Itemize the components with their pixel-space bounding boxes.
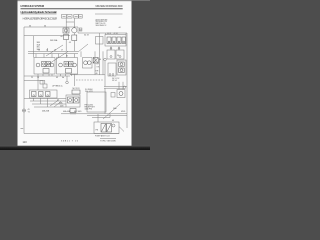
manifold valve 2 <box>112 37 116 44</box>
right note rule <box>95 13 123 15</box>
tank drop line 2 <box>73 18 75 28</box>
svg-text:4b: 4b <box>62 77 64 79</box>
tank box 78a <box>74 15 79 19</box>
center valve pair <box>66 95 80 107</box>
svg-text:42 43: 42 43 <box>114 33 118 35</box>
mid diagonal <box>78 44 88 52</box>
page top shadow <box>18 0 132 2</box>
viewer background <box>0 0 150 150</box>
bottom right valve box <box>94 122 119 134</box>
svg-text:46: 46 <box>99 59 101 61</box>
charge line lower <box>28 53 78 55</box>
bottom shadow band <box>0 146 150 150</box>
second lower bus <box>87 115 127 117</box>
main lower bus <box>61 113 127 115</box>
svg-text:40A 40B: 40A 40B <box>63 110 71 113</box>
test port <box>22 109 25 112</box>
tank box 77a <box>62 15 67 19</box>
right valve stack <box>117 60 126 75</box>
svg-text:49: 49 <box>112 120 114 122</box>
tank drop line 1 <box>65 18 67 33</box>
riser B <box>47 48 49 51</box>
svg-text:HYDRAULIC RESERVOIR AND OIL CO: HYDRAULIC RESERVOIR AND OIL COOLER <box>23 18 58 21</box>
check valve under filter <box>64 35 69 40</box>
cell drops <box>33 98 35 101</box>
manifold stems <box>110 47 112 51</box>
svg-text:25: 25 <box>31 77 33 79</box>
svg-text:16: 16 <box>54 50 56 52</box>
svg-text:40C 40D: 40C 40D <box>74 111 82 113</box>
svg-text:40: 40 <box>96 73 98 75</box>
feed to block <box>37 88 39 91</box>
svg-text:1000 PSI: 1000 PSI <box>85 108 93 110</box>
manifold valve 4 <box>122 37 126 44</box>
right tall box <box>108 63 116 76</box>
label diagonals <box>50 101 58 107</box>
svg-text:40 41: 40 41 <box>107 33 111 35</box>
svg-text:MID-SIZE WORKMAN 3000: MID-SIZE WORKMAN 3000 <box>96 5 124 8</box>
tank box 78b <box>79 15 82 19</box>
check valve circle <box>66 81 69 84</box>
aux small box <box>111 93 115 98</box>
tank box 77b <box>67 15 72 19</box>
svg-text:13: 13 <box>37 77 39 79</box>
left pump unit <box>34 58 55 75</box>
svg-text:LIFT V: LIFT V <box>52 85 58 87</box>
schematic left border <box>23 27 25 134</box>
svg-text:Hydrostatic/Hydraulic Schemati: Hydrostatic/Hydraulic Schematic <box>21 10 58 14</box>
lift valve block <box>30 90 58 98</box>
header rule <box>21 7 123 10</box>
schematic bottom border <box>24 133 119 135</box>
margin tick <box>21 127 24 129</box>
big empty box <box>87 92 106 112</box>
svg-text:WHL MTR: WHL MTR <box>85 91 94 93</box>
top-right hairline <box>132 0 151 2</box>
second supply line <box>24 35 70 37</box>
bus line a <box>24 98 66 100</box>
right wheel motor <box>117 90 125 98</box>
page <box>18 0 132 146</box>
leader diagonal long <box>44 52 68 68</box>
center risers <box>80 51 82 57</box>
svg-text:17: 17 <box>61 50 63 52</box>
solenoid box <box>93 58 98 64</box>
footer label line <box>100 137 116 139</box>
tank box ticks <box>63 15 66 17</box>
manifold block <box>105 35 126 47</box>
svg-text:36: 36 <box>44 25 46 27</box>
small component on line <box>40 81 43 85</box>
center small label box <box>72 90 80 94</box>
lower cross line 2 <box>24 80 45 82</box>
block component <box>43 84 47 88</box>
bus risers <box>97 114 99 122</box>
bus line b <box>30 100 66 102</box>
svg-text:MOTOR: MOTOR <box>73 88 81 90</box>
svg-text:TORO GM 4WD: TORO GM 4WD <box>100 140 116 142</box>
svg-text:14: 14 <box>38 50 40 52</box>
manifold valve 1 <box>107 37 111 44</box>
svg-text:40A 40B: 40A 40B <box>42 110 50 113</box>
svg-text:53 54: 53 54 <box>112 80 117 82</box>
right pump unit <box>57 58 78 75</box>
svg-text:4WD: 4WD <box>121 111 126 113</box>
svg-text:36B 30A: 36B 30A <box>50 39 58 42</box>
pump drops <box>37 74 39 88</box>
charge line upper <box>28 50 78 52</box>
manifold valve 3 <box>117 37 121 44</box>
short link line <box>92 117 110 119</box>
mid column box <box>96 37 104 45</box>
tank link line <box>66 21 74 23</box>
svg-text:49: 49 <box>56 77 58 79</box>
svg-text:45: 45 <box>69 42 71 44</box>
svg-text:PUMP ASSY 103: PUMP ASSY 103 <box>95 134 110 137</box>
svg-text:SEE PAGE 92: SEE PAGE 92 <box>96 24 107 27</box>
bottom right leader <box>119 127 124 132</box>
bus-to-pump ticks <box>35 54 37 58</box>
svg-text:110: 110 <box>23 140 28 144</box>
right main line <box>126 33 128 128</box>
right boxes under manifold <box>107 50 115 59</box>
svg-text:60: 60 <box>61 36 63 38</box>
subtitle underline <box>21 13 57 15</box>
svg-text:40: 40 <box>57 100 59 102</box>
breather box <box>79 28 82 31</box>
valve under cooler <box>72 35 77 41</box>
riser to pump top <box>33 36 35 58</box>
right port symbol <box>104 58 107 61</box>
svg-text:50: 50 <box>117 55 119 57</box>
svg-text:44: 44 <box>119 27 121 29</box>
lower cross line 1 <box>24 75 70 77</box>
svg-text:36: 36 <box>29 25 31 27</box>
top supply line <box>24 27 126 33</box>
svg-text:HYDRAULIC SYSTEM: HYDRAULIC SYSTEM <box>21 4 45 8</box>
svg-text:36B11 T 15: 36B11 T 15 <box>61 141 79 143</box>
svg-text:32: 32 <box>80 30 82 32</box>
manifold to main line <box>126 32 127 34</box>
center bus line <box>70 74 105 76</box>
right column verticals <box>104 61 106 87</box>
right bus lines <box>104 86 127 88</box>
cooler circle <box>72 28 77 33</box>
filter on drop line <box>63 28 69 33</box>
axle dashed line <box>76 79 104 81</box>
svg-text:34 33: 34 33 <box>84 34 89 36</box>
svg-text:15: 15 <box>46 50 48 52</box>
leader diagonal 2 <box>46 45 63 56</box>
center motor pair <box>83 58 93 69</box>
svg-text:W: W <box>66 55 68 57</box>
tow leader diagonal <box>103 104 120 119</box>
trident component <box>70 109 76 113</box>
bus line c <box>32 103 66 105</box>
svg-text:T1: T1 <box>28 111 30 113</box>
bus line d <box>34 106 66 108</box>
